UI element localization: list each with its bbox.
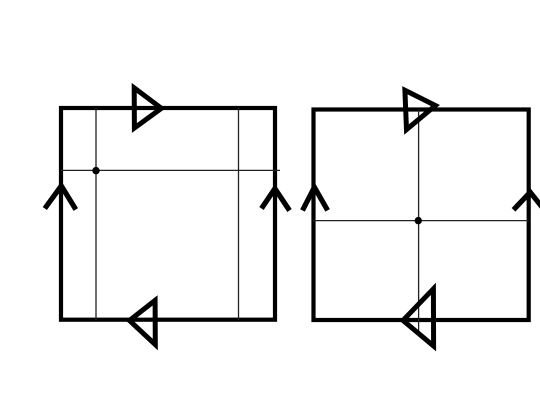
right square bottom arrow (hollow triangle pointing left) bbox=[403, 289, 434, 346]
left square vertical crease line (right) bbox=[238, 108, 240, 320]
left square vertical crease line (left) bbox=[95, 108, 97, 320]
left square outline bbox=[61, 108, 275, 320]
right square left-edge chevron arrow (up) bbox=[303, 187, 328, 210]
right square center dot bbox=[415, 217, 422, 224]
right square top arrow (hollow triangle pointing right) bbox=[405, 90, 436, 129]
left square top arrow (hollow triangle pointing right) bbox=[134, 88, 161, 128]
right square horizontal crease line bbox=[314, 220, 529, 222]
left square reference dot bbox=[92, 167, 99, 174]
left square horizontal crease line bbox=[61, 169, 280, 171]
left square right-edge chevron arrow (up) bbox=[262, 189, 290, 211]
right square outline bbox=[314, 110, 529, 321]
right square right-edge chevron arrow (up, clipped at image edge) bbox=[514, 192, 540, 212]
left square bottom arrow (hollow triangle pointing left) bbox=[129, 300, 155, 344]
left square left-edge chevron arrow (up) bbox=[45, 186, 76, 210]
right square vertical crease line bbox=[418, 110, 420, 331]
